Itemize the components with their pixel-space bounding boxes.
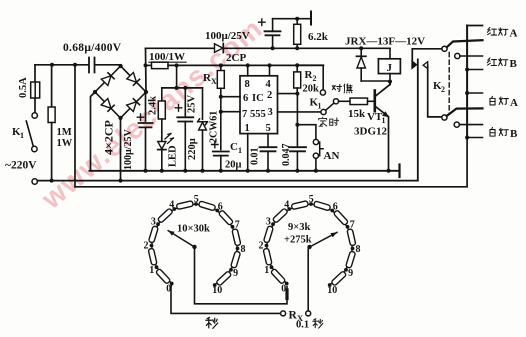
svg-text:1W: 1W [57, 138, 73, 149]
rotary SW1 (10x30k seconds) tap 0 [170, 282, 174, 286]
rotary SW2 (9x3k) tap 10 [328, 283, 332, 287]
wire C2 bottom [272, 35, 274, 48]
rotary SW1 (10x30k seconds) wiper arm [168, 231, 194, 247]
wire pin2 to R2 [278, 93, 298, 95]
label red lamp B char2 [499, 58, 508, 65]
rotary SW2 (9x3k) chord wire 7-8 [348, 227, 353, 249]
wire 6.2k bottom [296, 44, 298, 48]
rotary SW2 (9x3k) tap 6 [330, 209, 334, 213]
wire 6.2k top [296, 19, 298, 25]
svg-text:9×3k: 9×3k [288, 222, 310, 233]
rotary SW1 (10x30k seconds) chord wire 0-1 [157, 267, 172, 283]
junction VCC / RX [219, 63, 223, 67]
junction bus / C100u-2 [271, 46, 275, 50]
rotary SW2 (9x3k) chord wire 5-6 [311, 204, 332, 211]
junction ground bus / LED [160, 169, 164, 173]
switch K1b contact timer [321, 109, 326, 114]
svg-text:1: 1 [318, 102, 322, 111]
svg-text:2: 2 [259, 241, 264, 252]
svg-text:AN: AN [324, 150, 340, 162]
capacitor 0.68u/400V [89, 58, 95, 73]
svg-text:100μ/25V: 100μ/25V [123, 129, 134, 170]
svg-text:10: 10 [212, 285, 222, 296]
wire pin6 to RX [221, 96, 240, 98]
junction ground bus / zener [201, 169, 205, 173]
flyback diode [357, 56, 366, 68]
svg-text:J: J [387, 62, 393, 74]
rotary SW2 (9x3k) resistor element 0-1 [271, 268, 286, 284]
svg-text:1: 1 [245, 123, 250, 134]
wire pin7 to RX [221, 111, 240, 113]
junction VCC / R2 [295, 63, 299, 67]
resistor 100/1W [152, 62, 169, 69]
junction top rail / 6.2k [295, 17, 299, 21]
wire RX to C1 [220, 88, 222, 149]
svg-text:6: 6 [333, 201, 338, 212]
wire 0.047 bottom [296, 151, 298, 171]
rotary SW2 (9x3k) tap 8 [351, 247, 355, 251]
button AN contact top [313, 139, 318, 144]
switch K2 lower throw (white B) [454, 122, 459, 127]
switch K2 upper common [442, 46, 447, 51]
svg-text:B: B [510, 58, 518, 70]
wire R2 bottom [296, 88, 298, 94]
svg-text:+275k: +275k [284, 235, 312, 246]
plus polarity mark [137, 114, 143, 120]
wire 1M top [51, 65, 53, 107]
wire AC neutral line [37, 180, 417, 182]
rotary SW2 (9x3k) resistor element 5-6 [313, 201, 330, 211]
svg-text:8: 8 [245, 79, 250, 90]
svg-text:C: C [230, 141, 238, 153]
svg-text:5: 5 [266, 123, 271, 134]
rotary SW2 (9x3k) tap 3 [271, 222, 275, 226]
wire top AC bus right of C [95, 64, 121, 66]
bridge diode D2 (top-right) [127, 73, 140, 86]
wire flyback to collector node [361, 80, 390, 82]
rotary SW2 (9x3k) tap 9 [344, 268, 348, 272]
capacitor 100u/25V (storage) [265, 31, 281, 35]
resistor 2.4k [158, 101, 165, 119]
diode 2CP [215, 44, 224, 53]
svg-text:9: 9 [233, 268, 238, 279]
wire 2.4k to LED [161, 119, 163, 142]
switch K1b contact focus [320, 90, 325, 95]
junction sub-bus/220u [183, 86, 187, 90]
svg-text:A: A [510, 97, 518, 109]
wire 1M bottom [51, 123, 53, 181]
rotary SW1 (10x30k seconds) resistor element 5-6 [198, 201, 215, 211]
junction pin2/R2/C047 [295, 92, 299, 96]
svg-text:3: 3 [151, 217, 156, 228]
rotary SW2 (9x3k) resistor element 1-2 [263, 248, 272, 265]
rotary SW2 (9x3k) tap 7 [346, 225, 350, 229]
svg-text:4×2CP: 4×2CP [102, 120, 116, 155]
svg-text:2CP: 2CP [226, 52, 246, 64]
wire AN to ground [315, 158, 317, 170]
rotary SW2 (9x3k) resistor element 9-10 [331, 271, 347, 286]
terminal bar ground bus end [398, 165, 400, 178]
svg-text:1: 1 [264, 265, 269, 276]
bridge diode D3 (left-bottom) [101, 99, 114, 112]
switch K1b pivot [333, 99, 338, 104]
wire white lamp B upper [459, 124, 482, 126]
svg-text:X: X [211, 77, 217, 86]
rotary SW1 (10x30k seconds) tap 7 [231, 225, 235, 229]
junction sub-bus/drop [175, 86, 179, 90]
rotary SW1 (10x30k seconds) chord wire 5-6 [196, 204, 217, 211]
rotary SW1 (10x30k seconds) resistor element 0-1 [156, 268, 171, 284]
wire RX terminal to SW2 wiper [307, 249, 309, 311]
junction VCC / pin8 [246, 63, 250, 67]
junction bus / flyback diode [359, 46, 363, 50]
wire collector up [389, 82, 391, 85]
wire pin5 to C 0.01 [267, 134, 269, 148]
junction lamp bus / red B [465, 68, 469, 72]
junction ground bus / 220u [183, 169, 187, 173]
svg-text:7: 7 [350, 220, 355, 231]
rotary SW2 (9x3k) resistor element 4-5 [291, 201, 308, 210]
svg-text:25V: 25V [187, 95, 198, 114]
wire SW1 wiper to SW2 tap0 [195, 249, 288, 304]
rotary SW1 (10x30k seconds) chord wire 9-10 [215, 270, 231, 285]
rotary SW2 (9x3k) chord wire 1-2 [267, 246, 272, 268]
rotary SW1 (10x30k seconds) chord wire 4-5 [174, 204, 196, 209]
wire K2 feed down to contact arrow [411, 49, 413, 61]
junction lamp bus / white B [465, 136, 469, 140]
terminal AC neutral [32, 179, 37, 184]
rotary SW2 (9x3k) tap 0 [285, 282, 289, 286]
wire RX top [220, 65, 222, 70]
rotary SW2 (9x3k) tap 1 [270, 265, 274, 269]
switch K2 lower common [442, 115, 447, 120]
bridge rectifier 4x2CP outline [95, 66, 146, 118]
wire VCC rail [168, 64, 323, 66]
svg-text:B: B [510, 128, 518, 140]
svg-text:6: 6 [218, 201, 223, 212]
svg-text:4: 4 [266, 79, 272, 90]
junction RX / pin7 [219, 110, 223, 114]
wire bus to relay coil [389, 48, 391, 59]
rotary SW1 (10x30k seconds) chord wire 7-8 [233, 227, 238, 249]
capacitor 100u/25V (filter) [139, 123, 153, 127]
label dingshi (timer) char1 [319, 117, 327, 126]
wire C100u to ground bus [145, 127, 147, 170]
svg-text:LED: LED [168, 145, 179, 167]
rotary SW1 (10x30k seconds) chord wire 8-9 [231, 249, 238, 270]
wire R2 top [296, 65, 298, 72]
relay contact stationary (filled arrow) [412, 61, 417, 69]
svg-text:2.4k: 2.4k [148, 96, 159, 115]
svg-text:20k: 20k [303, 84, 320, 95]
label duijiao (focus) char2 [344, 84, 353, 93]
rotary SW2 (9x3k) chord wire 3-4 [273, 209, 289, 224]
junction top bus / 1M [50, 63, 54, 67]
rotary SW2 (9x3k) wiper arm [310, 232, 337, 247]
bridge node bottom [118, 116, 122, 120]
junction bus / 6.2k [295, 46, 299, 50]
switch K1 contact top [32, 113, 37, 118]
junction ground bus / pin1 [246, 169, 250, 173]
rotary SW1 (10x30k seconds) tap 1 [155, 265, 159, 269]
fuse 0.5A [31, 82, 40, 98]
capacitor 220u/25V [177, 117, 193, 121]
rotary SW2 (9x3k) tap 5 [309, 202, 313, 206]
resistor 1M 1W [48, 107, 55, 123]
junction VCC / zener sub-bus [175, 63, 179, 67]
svg-text:3DG12: 3DG12 [354, 126, 388, 138]
svg-text:5: 5 [309, 194, 314, 205]
rotary SW1 (10x30k seconds) tap 5 [194, 202, 198, 206]
button AN contact bottom [313, 153, 318, 158]
rotary SW2 (9x3k) resistor element 6-7 [333, 210, 348, 226]
switch K1 blade [26, 121, 33, 146]
rotary SW2 (9x3k) chord wire 8-9 [346, 249, 353, 270]
svg-text:A: A [510, 28, 518, 40]
svg-text:1: 1 [382, 116, 386, 125]
label white lamp B char1 [490, 127, 495, 136]
label red lamp B char1 [487, 58, 496, 66]
wire to fuse [34, 65, 36, 82]
rotary SW1 (10x30k seconds) tap 9 [229, 268, 233, 272]
svg-text:1M: 1M [57, 127, 72, 138]
svg-text:9: 9 [348, 268, 353, 279]
capacitor C1 20u [213, 152, 229, 156]
wire pin1 to ground [247, 134, 249, 171]
bridge node top [119, 64, 123, 68]
wire 220u bottom [184, 122, 186, 171]
rotary SW2 (9x3k) tap 2 [265, 244, 269, 248]
rotary SW2 (9x3k) resistor element 2-3 [263, 226, 273, 243]
svg-text:2: 2 [441, 85, 445, 94]
terminal RX left [281, 311, 286, 316]
svg-text:100/1W: 100/1W [149, 51, 185, 63]
wire VCC drop to sub-bus [176, 65, 178, 88]
wire to 100/1W [146, 64, 152, 66]
label white lamp B char2 [499, 128, 508, 135]
junction ground bus / C1 [219, 169, 223, 173]
wire SW1 tap0 to RX terminal [171, 283, 280, 313]
resistor R2 20k [294, 72, 301, 88]
svg-text:~220V: ~220V [5, 160, 37, 172]
svg-text:100μ/25V: 100μ/25V [205, 30, 250, 42]
transistor VT1 emitter with arrow [376, 107, 390, 118]
bridge node left [93, 90, 97, 94]
rotary SW2 (9x3k) chord wire 6-7 [332, 211, 347, 227]
switch K1 contact bottom [32, 146, 37, 151]
terminal bar top rail [310, 12, 312, 25]
label white lamp A char1 [490, 96, 495, 105]
wire white lamp B lower [467, 137, 482, 139]
rotary SW1 (10x30k seconds) chord wire 2-3 [152, 224, 159, 245]
rotary SW1 (10x30k seconds) tap 10 [213, 283, 217, 287]
wire SW2 tap0 thick segment [285, 290, 288, 299]
wire zener sub-bus [162, 87, 203, 89]
wire 15k to base [368, 100, 375, 102]
rotary SW1 (10x30k seconds) wiper hub [192, 245, 196, 249]
rotary SW1 (10x30k seconds) tap 6 [215, 209, 219, 213]
wire switch to 15k [339, 100, 350, 102]
relay coil J (JRX-13F-12V) [378, 59, 400, 74]
resistor 6.2k [294, 24, 301, 44]
svg-text:6.2k: 6.2k [308, 31, 329, 43]
label duijiao (focus) char1 [332, 84, 341, 91]
rotary SW1 (10x30k seconds) resistor element 4-5 [176, 201, 193, 210]
switch K1b blade [326, 103, 334, 110]
transistor VT1 collector [376, 85, 391, 97]
junction ground bus / AN [314, 169, 318, 173]
wire lamp bus top stub (red A) [467, 25, 482, 27]
rotary SW2 (9x3k) tap 4 [287, 207, 291, 211]
transistor VT1 base bar [373, 91, 376, 112]
wire pin2 node down to 0.047 [296, 94, 298, 148]
svg-text:220μ: 220μ [187, 138, 198, 160]
label red lamp A char1 [487, 27, 496, 35]
junction 0.047 column / AN [295, 123, 299, 127]
terminal RX right [306, 311, 311, 316]
svg-text:4: 4 [169, 200, 174, 211]
svg-text:0.047: 0.047 [281, 144, 292, 167]
rotary SW1 (10x30k seconds) tap 4 [172, 207, 176, 211]
wire flyback top [360, 48, 362, 56]
wire zener top [202, 88, 204, 119]
resistor RX (timing) [217, 71, 224, 89]
wire C1 bottom [220, 156, 222, 171]
wire red lamp B upper [460, 55, 483, 57]
svg-text:2: 2 [144, 241, 149, 252]
wire emitter to ground bus [388, 117, 390, 171]
svg-text:2: 2 [313, 74, 317, 83]
label white lamp A char2 [499, 97, 508, 104]
svg-text:8: 8 [241, 244, 246, 255]
wire LED to ground bus [161, 150, 163, 171]
junction +V column / 100ohm rail [144, 63, 148, 67]
junction neutral / 1M [50, 179, 54, 183]
wire lamp bus [466, 26, 468, 138]
junction collector/flyback [388, 80, 392, 84]
svg-text:6: 6 [243, 93, 248, 104]
wire pin3 to K1 mode switch [278, 111, 321, 113]
plus polarity mark [259, 19, 265, 25]
junction neutral / bridge bottom [119, 179, 123, 183]
svg-text:8: 8 [356, 244, 361, 255]
svg-text:0.68μ/400V: 0.68μ/400V [63, 42, 122, 54]
wire +12V bus to relay coil [223, 47, 390, 49]
label 0.1 miao char [313, 319, 323, 328]
rotary SW2 (9x3k) chord wire 9-10 [330, 270, 346, 285]
relay contact stationary (open arrow) [423, 62, 442, 117]
bridge diode D4 (bottom-right) [127, 99, 140, 112]
rotary SW2 (9x3k) chord wire 2-3 [267, 224, 274, 245]
bridge node right [144, 90, 148, 94]
rotary SW1 (10x30k seconds) tap 2 [150, 244, 154, 248]
wire fuse to switch K1 [34, 98, 36, 113]
rotary SW1 (10x30k seconds) resistor element 8-9 [231, 251, 241, 268]
svg-text:1: 1 [238, 146, 242, 155]
svg-text:3: 3 [268, 107, 273, 118]
rotary SW1 (10x30k seconds) tap 3 [156, 222, 160, 226]
bridge diode D1 (left-top) [101, 73, 114, 86]
wire 0.01 bottom [267, 151, 269, 171]
svg-text:2CW61: 2CW61 [209, 111, 220, 143]
zener diode 2CW61 [198, 119, 208, 130]
label red lamp A char2 [499, 28, 508, 35]
wire top rail to 6.2k [273, 18, 311, 20]
resistor 15k [350, 98, 368, 105]
wire contact to K2 upper common [412, 48, 442, 50]
rotary SW1 (10x30k seconds) chord wire 1-2 [152, 246, 157, 268]
rotary SW1 (10x30k seconds) resistor element 7-8 [232, 229, 241, 246]
plus polarity mark [175, 105, 181, 111]
svg-text:0.01: 0.01 [250, 148, 261, 166]
wire bridge right up to +V bus [145, 48, 148, 92]
wire flyback bottom [360, 68, 362, 81]
svg-text:10: 10 [327, 285, 337, 296]
svg-text:0.1: 0.1 [296, 320, 309, 331]
rotary SW1 (10x30k seconds) chord wire 6-7 [217, 211, 232, 227]
svg-text:7: 7 [242, 109, 247, 120]
junction top bus / lamp loop [73, 63, 77, 67]
wire lamp supply loop [75, 138, 467, 187]
switch K2 upper throw (red B) [455, 53, 460, 58]
rotary SW2 (9x3k) chord wire 4-5 [289, 204, 311, 209]
svg-text:10×30k: 10×30k [177, 224, 210, 235]
svg-text:1: 1 [20, 131, 24, 140]
wire pin4 [269, 65, 271, 75]
rotary SW2 (9x3k) resistor element 3-4 [272, 208, 288, 223]
wire to button AN [297, 125, 316, 140]
rotary SW1 (10x30k seconds) resistor element 3-4 [157, 208, 173, 223]
wire riser to lamp loop [74, 65, 76, 187]
rotary SW1 (10x30k seconds) resistor element 2-3 [148, 226, 158, 243]
switch K2 lower blade to white lamp A [447, 108, 483, 116]
rotary SW2 (9x3k) wiper hub [307, 245, 311, 249]
op-amp/timer IC 7555 [240, 76, 278, 134]
wire 220u top [184, 88, 186, 117]
plus polarity mark [212, 141, 218, 147]
wire red lamp B lower [467, 69, 482, 71]
capacitor 0.047 [289, 147, 306, 151]
rotary SW1 (10x30k seconds) resistor element 1-2 [148, 248, 157, 265]
wire relay armature to neutral [417, 59, 419, 180]
rotary SW1 (10x30k seconds) resistor element 9-10 [216, 271, 232, 286]
rotary SW2 (9x3k) resistor element 8-9 [346, 251, 356, 268]
svg-text:15k: 15k [348, 108, 366, 120]
wire 2.4k top [161, 88, 163, 101]
wire +V bus to 2CP diode [146, 47, 215, 49]
wire C2 top [272, 19, 274, 32]
wire VCC to focus contact [297, 65, 323, 90]
junction ground bus / emitter [387, 169, 391, 173]
wire bridge left to ground bus [91, 92, 96, 171]
wire white lamp A upper [467, 92, 482, 94]
junction ground bus / C100u [144, 169, 148, 173]
LED [158, 134, 174, 150]
svg-text:5: 5 [194, 194, 199, 205]
wire bridge bottom to AC neutral line [120, 118, 122, 181]
label miao (seconds) [206, 317, 218, 328]
button AN actuator [320, 142, 323, 156]
label dingshi (timer) char2 [330, 118, 339, 125]
junction VCC / pin4 [268, 63, 272, 67]
svg-text:1: 1 [149, 265, 154, 276]
svg-text:555: 555 [250, 109, 266, 120]
rotary SW2 (9x3k) resistor element 7-8 [347, 229, 356, 246]
svg-text:4: 4 [284, 200, 289, 211]
svg-text:2: 2 [267, 90, 272, 101]
rotary SW2 (9x3k) chord wire 0-1 [272, 267, 287, 283]
junction ground bus / 0.047 [295, 169, 299, 173]
